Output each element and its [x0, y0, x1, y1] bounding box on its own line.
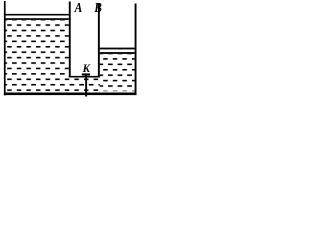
connecting channel top wall: [69, 76, 100, 78]
liquid (dashed water fill) in vessel A and connecting channel: [5, 20, 99, 93]
svg-text:B: B: [94, 0, 102, 15]
vessel B liquid surface line (upper): [100, 48, 135, 50]
valve K crossbar: [82, 73, 90, 75]
vessel A left wall: [4, 1, 6, 95]
svg-text:A: A: [74, 0, 83, 15]
valve K stem: [85, 76, 87, 97]
liquid (dashed water fill) in vessel B: [100, 54, 135, 91]
vessel B liquid surface line (lower): [100, 52, 135, 54]
vessel B right wall: [135, 4, 137, 96]
vessel A liquid surface line (upper): [5, 14, 68, 16]
vessel A liquid surface line (lower): [5, 18, 68, 20]
common bottom wall: [4, 93, 137, 96]
vessel B left wall: [98, 4, 100, 78]
vessel A right wall: [69, 2, 71, 78]
svg-text:K: K: [82, 63, 92, 75]
